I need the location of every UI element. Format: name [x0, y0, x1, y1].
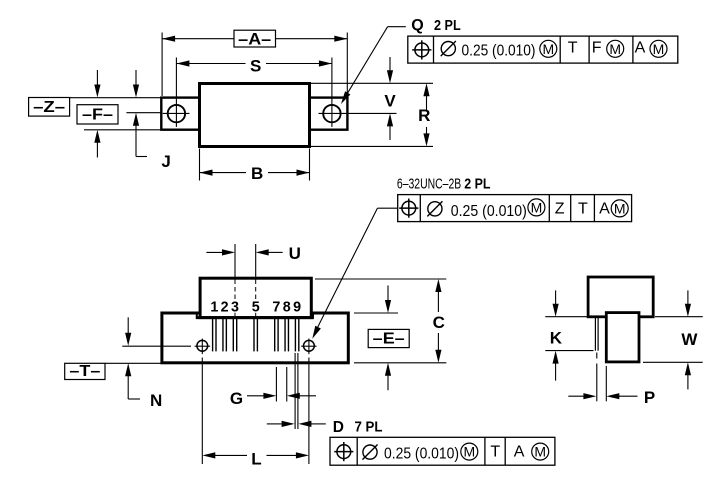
svg-text:U: U: [289, 244, 301, 263]
svg-text:1: 1: [210, 299, 218, 315]
front view cap bottom flange: [196, 313, 314, 318]
FCF3 diameter symbol: [362, 445, 377, 460]
dimension G: [230, 389, 316, 408]
FCF3 position symbol: [334, 442, 353, 461]
svg-text:T: T: [578, 201, 588, 218]
dimension W arrows: [685, 290, 691, 389]
svg-text:–Z–: –Z–: [33, 99, 65, 116]
dimension V: [384, 57, 396, 140]
svg-text:F: F: [592, 40, 602, 57]
svg-text:M: M: [531, 199, 543, 215]
dimension N arrows: [125, 317, 140, 399]
FCF1 M circle 3: [650, 40, 667, 57]
dimension N label: [150, 391, 162, 410]
dimension W label: [681, 330, 698, 349]
dimension U: [206, 244, 301, 263]
top view right hole: [319, 58, 397, 127]
svg-text:B: B: [251, 164, 263, 183]
svg-text:M: M: [463, 444, 475, 460]
svg-text:8: 8: [283, 299, 291, 315]
svg-text:K: K: [550, 328, 563, 347]
dimension -A- line: [162, 36, 347, 42]
svg-text:D: D: [333, 419, 344, 436]
datum -T- box: [65, 363, 105, 380]
svg-text:–F–: –F–: [82, 106, 113, 123]
FCF2 M circle 2: [611, 200, 628, 217]
feature control frame Q outline: [408, 36, 678, 63]
feature control frame 6-32UNC outline: [398, 195, 632, 222]
svg-text:2: 2: [221, 299, 229, 315]
top view body: [200, 84, 310, 147]
FCF3 M circle 1: [461, 443, 478, 460]
svg-text:M: M: [534, 444, 546, 460]
datum -T- leader line: [105, 362, 162, 364]
dimension D extension lines: [295, 353, 298, 429]
connector pins: [213, 318, 299, 352]
dimension J label: [161, 152, 170, 171]
FCF1 M circle 2: [607, 40, 624, 57]
hole centerline to left: [122, 345, 191, 347]
pin 5 centerline: [255, 244, 257, 316]
FCF2 diameter symbol: [427, 201, 442, 216]
leader from FCF2 to hole: [312, 208, 397, 339]
FCF1 tolerance text: [462, 42, 536, 59]
leader to Q: [341, 27, 406, 104]
front body top extension line: [354, 312, 398, 314]
svg-text:V: V: [384, 92, 396, 111]
dimension C: [433, 279, 445, 363]
cap top extension line: [315, 278, 446, 280]
FCF2 datum T: [578, 201, 588, 218]
svg-text:9: 9: [293, 299, 301, 315]
datum target -A- box: [234, 30, 276, 49]
svg-text:6–32UNC–2B: 6–32UNC–2B: [397, 176, 461, 193]
FCF1 datum A: [635, 40, 646, 57]
svg-text:0.25 (0.010): 0.25 (0.010): [462, 42, 536, 59]
front view body: [162, 313, 348, 363]
FCF3 tolerance text: [384, 446, 459, 463]
label D 7 PL: [333, 419, 383, 436]
tab height dim arrows (datum F): [94, 70, 100, 158]
svg-text:M: M: [614, 200, 626, 216]
dimension B line: [200, 164, 310, 183]
side view pin: [595, 317, 598, 350]
FCF3 datum T: [490, 444, 500, 461]
svg-text:T: T: [490, 444, 500, 461]
FCF3 datum A: [514, 444, 525, 461]
svg-text:A: A: [635, 40, 646, 57]
dimension W extension lines: [643, 317, 703, 363]
FCF2 datum A: [599, 201, 610, 218]
body top extension line: [311, 82, 433, 84]
svg-text:0.25 (0.010): 0.25 (0.010): [451, 203, 527, 220]
dimension J arrows: [133, 70, 147, 157]
FCF2 datum Z: [555, 201, 565, 218]
FCF3 M circle 2: [532, 443, 549, 460]
top view left hole: [163, 58, 190, 127]
svg-text:P: P: [644, 388, 655, 407]
svg-text:Z: Z: [555, 201, 565, 218]
front view cap: [200, 278, 311, 317]
svg-text:Q: Q: [411, 17, 423, 34]
dimension B extension lines: [200, 149, 310, 181]
datum -F- box: [77, 105, 118, 124]
svg-text:–E–: –E–: [373, 331, 405, 348]
FCF1 diameter symbol: [441, 41, 456, 56]
svg-text:2 PL: 2 PL: [464, 176, 490, 193]
hole center line left: [126, 112, 161, 114]
svg-text:J: J: [161, 152, 170, 171]
dimension R: [418, 83, 430, 146]
label 6-32UNC-2B 2 PL: [397, 176, 491, 193]
svg-text:–T–: –T–: [69, 363, 100, 380]
datum -Z- leader line: [70, 97, 162, 99]
datum -E- box: [368, 329, 409, 347]
dimension L extension lines: [202, 358, 309, 465]
svg-text:W: W: [681, 330, 698, 349]
svg-text:2 PL: 2 PL: [434, 18, 461, 34]
dimension K arrows: [553, 290, 559, 380]
pin 3 centerline: [234, 244, 236, 316]
front body bottom extension line: [354, 362, 446, 364]
FCF1 datum F: [592, 40, 602, 57]
FCF1 position symbol: [412, 40, 431, 59]
side view pin centerline: [596, 353, 598, 402]
top view left mounting tab: [161, 98, 199, 130]
label Q 2 PL: [411, 17, 461, 34]
svg-text:7 PL: 7 PL: [355, 419, 383, 436]
pin numbers: [210, 299, 301, 315]
svg-text:T: T: [568, 40, 578, 57]
FCF2 tolerance text: [451, 203, 527, 220]
svg-text:A: A: [599, 201, 610, 218]
body bottom extension line: [311, 145, 433, 147]
svg-text:N: N: [150, 391, 162, 410]
datum -Z- box: [29, 98, 70, 117]
svg-text:0.25 (0.010): 0.25 (0.010): [384, 446, 459, 463]
dimension P: [568, 388, 655, 407]
FCF2 position symbol: [399, 199, 418, 218]
side cap left edge extension: [605, 366, 607, 401]
FCF1 M circle 1: [540, 40, 557, 57]
side view body: [588, 277, 653, 317]
dimension S line: [176, 56, 332, 75]
FCF2 M circle 1: [528, 199, 545, 216]
svg-text:–A–: –A–: [238, 30, 271, 49]
top view right mounting tab: [310, 98, 348, 130]
svg-text:M: M: [542, 41, 554, 57]
svg-text:L: L: [251, 449, 261, 468]
dimension K extension lines: [545, 317, 593, 351]
side view cap: [606, 313, 639, 362]
dimension G extension lines: [276, 367, 286, 402]
svg-text:R: R: [418, 106, 430, 125]
dimension -A- extension lines: [162, 33, 347, 97]
dimension D: [267, 421, 326, 427]
svg-text:M: M: [653, 41, 665, 57]
svg-text:A: A: [514, 444, 525, 461]
FCF1 datum T: [568, 40, 578, 57]
svg-text:S: S: [250, 56, 261, 75]
tab bottom extension line: [84, 129, 161, 131]
svg-text:G: G: [230, 389, 243, 408]
svg-text:M: M: [609, 41, 621, 57]
front view right hole: [301, 339, 316, 355]
datum -E- arrows: [385, 286, 391, 391]
svg-text:C: C: [433, 313, 445, 332]
feature control frame D outline: [330, 437, 555, 465]
dimension K label: [550, 328, 563, 347]
dimension L: [202, 449, 309, 468]
svg-text:7: 7: [272, 299, 280, 315]
front view left hole: [195, 339, 211, 355]
